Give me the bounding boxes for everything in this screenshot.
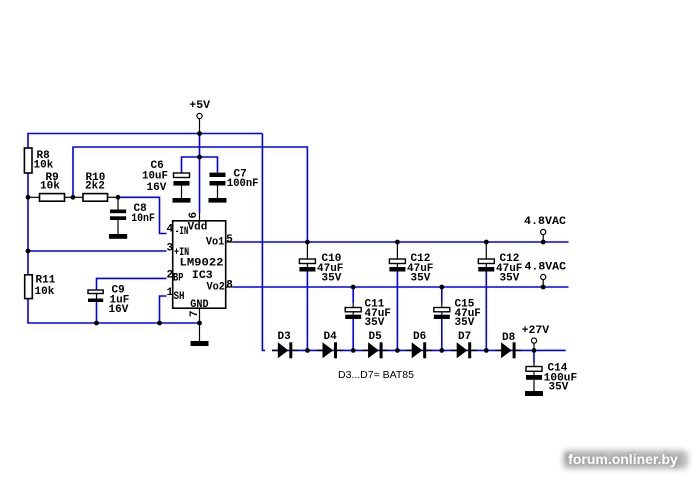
capacitor C12 b: [478, 253, 522, 285]
svg-text:7: 7: [189, 311, 201, 318]
capacitor C12 a: [389, 253, 433, 285]
pin8 lead: [226, 286, 233, 288]
svg-text:2k2: 2k2: [85, 181, 105, 193]
svg-text:+5V: +5V: [189, 100, 210, 112]
capacitor C7: [210, 169, 259, 199]
svg-text:D3...D7= BAT85: D3...D7= BAT85: [338, 369, 414, 381]
node IC gnd: [197, 321, 202, 326]
node Vo1 out: [541, 240, 546, 245]
svg-text:10k: 10k: [40, 181, 60, 193]
node Vo1 C12a: [395, 240, 400, 245]
wire C10 branch: [306, 242, 308, 259]
svg-text:3: 3: [167, 243, 174, 255]
svg-text:10k: 10k: [34, 160, 54, 172]
svg-text:D5: D5: [369, 331, 383, 343]
wire pin2 BP to C9: [97, 278, 167, 290]
wire C15 branch: [441, 287, 443, 303]
terminal +5V: [189, 100, 210, 119]
svg-text:16V: 16V: [147, 182, 167, 194]
watermark: [563, 450, 688, 469]
node Vo2 C11: [351, 285, 356, 290]
resistor R10: [73, 172, 118, 201]
wire C8 drop: [117, 197, 119, 209]
terminal 4.8VAC top: [524, 216, 566, 235]
wire feedback rail y147: [73, 147, 307, 242]
wire gnd drop: [199, 323, 201, 341]
node Vo2 out: [541, 285, 546, 290]
svg-text:35V: 35V: [500, 273, 520, 285]
svg-text:10uF: 10uF: [142, 170, 168, 182]
wire long vertical to D3: [262, 134, 265, 351]
terminal 4.8VAC bottom: [525, 262, 567, 280]
svg-text:SH: SH: [174, 291, 185, 303]
capacitor C6: [142, 160, 190, 198]
node junction dots: [26, 131, 546, 353]
svg-text:4: 4: [167, 224, 174, 236]
node +IN: [26, 249, 31, 254]
wire C6 C7 top link: [182, 157, 218, 173]
svg-text:D8: D8: [502, 332, 516, 344]
svg-text:IC3: IC3: [192, 270, 213, 282]
svg-text:100nF: 100nF: [227, 178, 259, 190]
pin5 lead: [226, 241, 233, 243]
capacitor C8: [110, 203, 155, 234]
node D7 D8: [484, 348, 489, 353]
svg-text:Vdd: Vdd: [188, 222, 208, 234]
capacitor C10: [299, 253, 343, 285]
svg-text:D7: D7: [458, 331, 471, 343]
svg-text:35V: 35V: [455, 317, 475, 329]
wire C12a branch: [396, 242, 398, 259]
wire C11 branch: [352, 287, 354, 303]
terminal +27V: [522, 325, 550, 343]
node D3 D4: [305, 348, 310, 353]
wire vdd pin lead: [199, 213, 201, 221]
svg-text:LM9022: LM9022: [180, 258, 224, 270]
node R9 R10 feedback: [71, 195, 76, 200]
wire pin1 SH: [160, 296, 167, 323]
svg-text:6: 6: [188, 212, 200, 219]
svg-text:10k: 10k: [35, 286, 55, 298]
wire pin3 +IN: [28, 250, 167, 252]
svg-text:Vo2: Vo2: [207, 282, 225, 294]
ground C6: [173, 198, 191, 203]
svg-text:D6: D6: [413, 331, 426, 343]
wire C12b branch: [485, 242, 487, 259]
wire gnd pin lead: [199, 308, 201, 323]
node D4 D5: [351, 348, 356, 353]
wire C9 bottom: [96, 302, 98, 323]
wire R10 to pin4: [118, 197, 167, 233]
node +27V: [532, 348, 537, 353]
svg-text:8: 8: [226, 280, 233, 292]
svg-text:35V: 35V: [365, 317, 385, 329]
node C6C7: [197, 155, 202, 160]
capacitor C11: [345, 299, 391, 330]
wire left vertical R8-R11: [27, 173, 29, 275]
svg-text:16V: 16V: [109, 304, 129, 316]
wire top rail +5V net: [28, 134, 262, 149]
node Vo1 C12b: [484, 240, 489, 245]
svg-text:2: 2: [167, 270, 174, 282]
svg-text:D4: D4: [324, 331, 338, 343]
wire +5V terminal drop: [199, 119, 201, 134]
node D6 D7: [439, 348, 444, 353]
node R10 C8: [116, 195, 121, 200]
node C9 gnd: [94, 321, 99, 326]
node +5V rail: [197, 131, 202, 136]
diode D8: [495, 332, 521, 358]
capacitor C15: [434, 299, 481, 330]
svg-text:10nF: 10nF: [131, 213, 155, 225]
svg-text:5: 5: [226, 234, 233, 246]
diode D3: [272, 331, 298, 358]
ground C7: [209, 198, 227, 203]
node Vo1 C10: [305, 240, 310, 245]
wire C14 drop: [533, 350, 535, 363]
diode D6: [406, 331, 432, 358]
svg-text:Vo1: Vo1: [206, 237, 225, 249]
svg-text:1: 1: [167, 287, 174, 299]
svg-text:D3: D3: [278, 331, 292, 343]
svg-text:+27V: +27V: [522, 325, 550, 337]
svg-text:35V: 35V: [549, 382, 569, 394]
op-amp IC LM9022 U IC3: [167, 212, 234, 317]
resistor R8: [24, 148, 53, 173]
diode D7: [451, 331, 477, 358]
svg-text:4.8VAC: 4.8VAC: [525, 262, 567, 274]
wire rail Vo2: [233, 286, 569, 288]
node SH gnd: [157, 321, 162, 326]
diode D5: [362, 331, 388, 358]
resistor R11: [25, 275, 56, 299]
wire rail Vo1: [233, 241, 569, 243]
node Vo2 C15: [439, 285, 444, 290]
svg-text:R11: R11: [36, 275, 56, 287]
svg-text:35V: 35V: [411, 273, 431, 285]
node D5 D6: [395, 348, 400, 353]
ground C14: [525, 391, 543, 396]
ground C8: [109, 234, 127, 239]
svg-text:35V: 35V: [322, 273, 342, 285]
svg-text:GND: GND: [190, 299, 209, 311]
node R8 R9: [26, 195, 31, 200]
wire diode rail: [272, 349, 534, 351]
ground main GND: [191, 341, 209, 346]
wire +27V tail: [534, 349, 566, 351]
resistor R9: [28, 172, 73, 201]
svg-text:4.8VAC: 4.8VAC: [524, 216, 566, 228]
diode D4: [317, 331, 343, 358]
wire +27V terminal stub: [533, 343, 535, 350]
svg-text:BP: BP: [173, 273, 184, 285]
wire 4.8VAC terminal stubs: [542, 235, 544, 243]
svg-text:-IN: -IN: [175, 226, 189, 238]
capacitor C14: [526, 363, 577, 394]
capacitor C9: [88, 285, 129, 317]
wire left vertical below R11 to bottom rail: [28, 299, 200, 324]
wire vdd vertical: [199, 134, 201, 214]
